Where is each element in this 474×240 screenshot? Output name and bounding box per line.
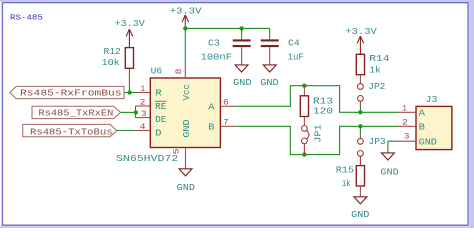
jumper JP1 [302,125,309,154]
svg-text:3: 3 [404,132,410,142]
svg-text:JP2: JP2 [368,81,385,92]
resistor R14 [356,54,364,74]
svg-text:J3: J3 [426,94,438,105]
U6 pin 3 stub [136,117,151,119]
ground symbol under C3 [235,65,248,72]
wire net A from pin 6 over R13 to J3 pin 1 [235,86,397,113]
J3 pin 1 stub [398,111,417,113]
connector J3 body [416,106,452,149]
ground symbol at J3 pin 3 [381,153,394,160]
junction node JP1 bottom on net B [302,152,306,156]
off-page area right [469,0,474,228]
svg-text:1: 1 [141,84,146,94]
svg-text:120: 120 [313,106,333,117]
svg-text:100nF: 100nF [201,52,232,63]
svg-text:1k: 1k [369,64,381,75]
svg-text:RE: RE [155,101,167,112]
junction node JP2 on net A [358,110,362,114]
U6 pin 5 stub [185,148,187,169]
wire Vcc rail to capacitors [185,27,269,29]
ground symbol under U6 [179,169,192,176]
wire tying pin 2 and pin 3 [135,106,137,118]
jumper JP3 [358,135,364,166]
J3 pin 3 stub [398,140,417,142]
svg-text:2: 2 [140,97,146,107]
svg-text:5: 5 [171,149,181,155]
svg-text:10k: 10k [102,57,121,68]
U6 pin 2 stub [136,105,151,107]
U6 pin 1 stub [136,92,151,94]
resistor R15 [356,166,364,186]
svg-text:8: 8 [174,69,184,75]
svg-text:JP1: JP1 [313,124,324,143]
svg-text:RS-485: RS-485 [10,14,43,22]
svg-text:Vcc: Vcc [181,84,192,100]
hierarchical label Rs485-TxToBus [23,124,117,137]
wire label to pin 1 [124,92,136,94]
wire net B to JP3 [359,126,361,134]
wire Vcc rail vertical [184,28,186,64]
wire R12 bottom to pin 1 net [128,68,130,92]
svg-text:GND: GND [177,182,196,193]
svg-text:GND: GND [380,167,399,178]
svg-text:SN65HVD72: SN65HVD72 [116,153,178,164]
svg-text:1k: 1k [342,178,351,189]
svg-text:A: A [208,101,215,112]
svg-text:GND: GND [419,136,438,147]
svg-text:6: 6 [223,98,229,108]
wire net B from pin 7 under JP1 to J3 pin 2 [235,126,397,154]
power flag +3.3V (R14) arrow symbol [357,36,364,54]
power flag +3.3V (Vcc) arrow symbol [182,15,189,28]
svg-text:R15: R15 [336,164,354,175]
svg-text:1uF: 1uF [288,52,304,63]
svg-text:A: A [419,108,426,119]
svg-text:DE: DE [155,114,167,125]
svg-text:B: B [419,122,426,133]
junction node JP3 on net B [358,124,362,128]
J3 pin 2 stub [398,125,417,127]
resistor R13 [303,86,305,96]
svg-text:Rs485-TxToBus: Rs485-TxToBus [30,127,113,138]
R14 bottom stub to JP2 [359,75,361,84]
ground symbol under R15 [354,197,367,204]
svg-text:D: D [155,127,162,138]
svg-text:Rs485_TxRxEN: Rs485_TxRxEN [38,107,113,118]
wire JP2 to net A [359,107,361,113]
svg-text:JP3: JP3 [369,136,386,147]
jumper JP2 [358,84,364,107]
svg-text:7: 7 [223,118,229,128]
ground symbol under C4 [263,65,276,72]
U6 pin 4 stub [137,130,151,132]
svg-text:4: 4 [140,122,146,132]
U6 pin 7 stub [220,125,235,127]
junction node Vcc rail [183,26,187,30]
svg-text:R12: R12 [104,46,121,57]
svg-text:+3.3V: +3.3V [345,26,377,37]
svg-text:GND: GND [260,77,279,88]
U6 pin 8 stub [184,64,186,78]
svg-text:2: 2 [402,117,408,127]
svg-text:GND: GND [181,119,192,138]
svg-text:1: 1 [402,104,407,114]
wire label to junction [121,111,136,113]
svg-text:C4: C4 [288,37,300,48]
hierarchical label Rs485_TxRxEN [32,106,121,118]
R15 bottom stub [359,186,361,197]
resistor R12 [125,48,133,69]
svg-text:C3: C3 [208,37,220,48]
svg-text:B: B [208,121,215,132]
R13 bottom stub to JP1 [303,117,305,126]
junction node R13 top on net A [302,84,306,88]
svg-text:Rs485-RxFromBus: Rs485-RxFromBus [20,88,122,99]
op-amp/transceiver U6 body [150,78,220,148]
junction node pins 2-3 tie [134,110,138,114]
power flag +3.3V (R12 pullup) arrow symbol [126,29,133,47]
svg-text:+3.3V: +3.3V [170,5,202,16]
wire label to pin 4 [117,130,137,132]
off-page area top [0,0,474,2]
U6 pin 6 stub [220,105,235,107]
svg-text:3: 3 [141,109,147,119]
svg-text:U6: U6 [151,65,163,76]
hierarchical label Rs485-RxFromBus [10,86,124,98]
capacitor C4 [261,28,279,64]
svg-text:GND: GND [233,77,252,88]
junction node R12/pin1 [127,90,131,94]
svg-text:R14: R14 [369,53,390,64]
off-page area bottom [0,226,474,228]
wire J3 pin 3 to ground [388,141,398,153]
svg-text:R: R [155,88,162,99]
svg-text:GND: GND [351,209,370,220]
junction node C3 top [239,26,243,30]
svg-text:+3.3V: +3.3V [115,18,146,29]
capacitor C3 [233,28,251,64]
